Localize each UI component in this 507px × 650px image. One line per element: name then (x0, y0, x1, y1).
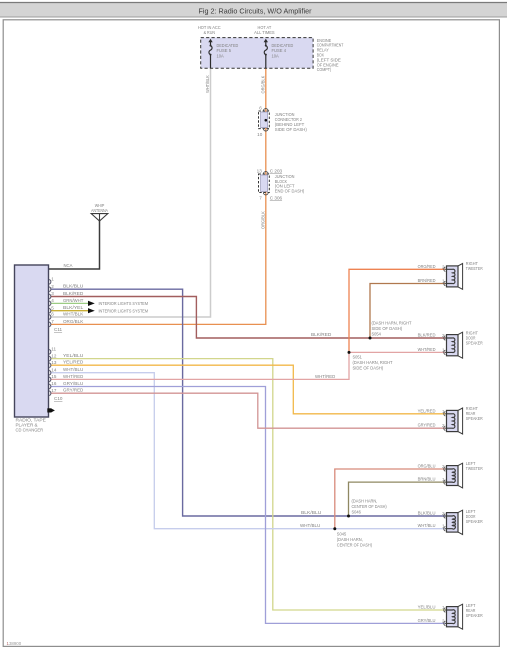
svg-text:GRN/WHT: GRN/WHT (63, 298, 83, 304)
svg-text:13: 13 (51, 360, 57, 365)
left rear speaker (458, 604, 463, 629)
interior lights system arrow upper (88, 301, 95, 306)
antenna lead wire NCA (49, 221, 100, 269)
svg-text:(DASH HARN, RIGHT: (DASH HARN, RIGHT (353, 360, 393, 365)
svg-text:GRY/RED: GRY/RED (418, 423, 436, 428)
svg-text:SPEAKER: SPEAKER (466, 613, 483, 618)
radio pin 11 (49, 349, 51, 354)
svg-text:10: 10 (257, 132, 263, 137)
svg-text:ORG/BLK: ORG/BLK (63, 319, 84, 325)
radio pin 3 BLK/RED (49, 294, 51, 299)
svg-text:GRY/BLU: GRY/BLU (63, 381, 84, 387)
radio pin 12 YEL/BLU (49, 356, 51, 361)
svg-text:WHT/BLU: WHT/BLU (63, 367, 84, 373)
svg-text:INTERIOR LIGHTS SYSTEM: INTERIOR LIGHTS SYSTEM (99, 309, 149, 314)
svg-text:SIDE OF DASH): SIDE OF DASH) (372, 326, 403, 331)
wire YEL/BLU from radio pin 12 to left rear speaker pin 1 (51, 359, 445, 610)
svg-text:FUSE 4: FUSE 4 (272, 48, 287, 53)
wire ORG/BLU from left tweeter pin 2 to splice S045 (335, 469, 445, 529)
svg-text:1: 1 (442, 605, 445, 610)
svg-text:(DASH HARN, RIGHT: (DASH HARN, RIGHT (372, 321, 412, 326)
svg-text:1: 1 (442, 347, 445, 352)
splice S046 (347, 515, 350, 518)
svg-text:2: 2 (442, 464, 445, 469)
radio pin 5 BLK/YEL (49, 308, 51, 313)
svg-text:WHT/BLU: WHT/BLU (300, 523, 320, 528)
svg-text:15: 15 (51, 374, 57, 379)
radio case ground pin with arrow (47, 408, 51, 412)
svg-text:3: 3 (51, 291, 54, 296)
svg-text:1: 1 (51, 277, 54, 282)
svg-text:YEL/RED: YEL/RED (63, 360, 84, 366)
svg-text:14: 14 (51, 367, 57, 372)
radio pin 4 GRN/WHT (49, 301, 51, 306)
svg-text:WHT/RED: WHT/RED (63, 374, 84, 380)
radio pin 17 GRY/RED (49, 391, 51, 396)
svg-text:C10: C10 (54, 396, 63, 401)
svg-text:ORG/BLK: ORG/BLK (260, 210, 265, 229)
radio pin 6 WHT/BLK (49, 315, 51, 320)
figure title bar (0, 2, 507, 17)
junction block (261, 175, 268, 192)
interior lights system arrow lower (88, 308, 95, 313)
svg-text:11: 11 (51, 347, 56, 352)
fuse dedicated fuse 4 (264, 39, 268, 43)
svg-text:BLK/YEL: BLK/YEL (63, 305, 84, 311)
wire WHT/BLU from radio pin 14 to left door speaker pin 1 via splice S045 (51, 373, 445, 529)
svg-text:2: 2 (442, 618, 445, 623)
svg-text:DEDICATED: DEDICATED (272, 43, 294, 48)
svg-text:1: 1 (442, 279, 445, 284)
wire BLK/YEL from radio pin 5 to interior lights system (51, 310, 88, 312)
svg-text:ORG/RED: ORG/RED (418, 264, 436, 269)
svg-text:WHT/BLK: WHT/BLK (205, 74, 210, 93)
svg-text:6: 6 (259, 106, 262, 111)
svg-text:FUSE 5: FUSE 5 (217, 48, 232, 53)
svg-text:SIDE OF DASH): SIDE OF DASH) (353, 365, 384, 370)
svg-text:END OF DASH): END OF DASH) (275, 189, 305, 194)
svg-text:2: 2 (51, 284, 54, 289)
wire BRN/RED from right tweeter pin 1 to splice S054 (370, 284, 445, 339)
radio pin 14 WHT/BLU (49, 370, 51, 375)
svg-text:YEL/BLU: YEL/BLU (418, 605, 436, 610)
svg-text:CD CHANGER: CD CHANGER (16, 428, 44, 433)
right rear speaker (458, 408, 463, 434)
svg-text:13: 13 (257, 168, 263, 173)
right tweeter (458, 264, 463, 290)
engine compartment relay box (201, 38, 313, 69)
wire YEL/RED from radio pin 13 to right rear speaker pin 1 (51, 365, 445, 414)
wire WHT/BLK from radio pin 6 to dedicated fuse 5 (51, 68, 211, 317)
svg-text:6: 6 (51, 312, 54, 317)
svg-text:16: 16 (51, 381, 57, 386)
svg-text:BLK/RED: BLK/RED (311, 332, 332, 337)
svg-text:4: 4 (51, 298, 54, 303)
splice S054 (369, 337, 372, 340)
wire GRY/RED from radio pin 17 to right rear speaker pin 2 (51, 393, 445, 428)
svg-text:BLK/BLU: BLK/BLU (63, 284, 84, 290)
svg-text:COMPT): COMPT) (317, 67, 332, 72)
wire GRY/BLU from radio pin 16 to left rear speaker pin 2 (51, 387, 445, 624)
svg-text:S046: S046 (352, 509, 362, 514)
svg-text:(DASH HARN,: (DASH HARN, (337, 537, 363, 542)
svg-text:WHT/BLK: WHT/BLK (63, 311, 84, 317)
right door speaker (458, 332, 463, 358)
svg-text:S045: S045 (337, 532, 347, 537)
svg-text:GRY/RED: GRY/RED (63, 388, 84, 394)
svg-text:ALL TIMES: ALL TIMES (254, 30, 275, 35)
svg-text:INTERIOR LIGHTS SYSTEM: INTERIOR LIGHTS SYSTEM (99, 301, 149, 306)
svg-text:1: 1 (442, 524, 445, 529)
svg-text:C11: C11 (54, 327, 63, 332)
svg-text:NCA: NCA (64, 263, 74, 268)
svg-text:GRY/BLU: GRY/BLU (418, 618, 436, 623)
left door speaker (458, 510, 463, 534)
svg-text:BLK/RED: BLK/RED (418, 333, 437, 338)
svg-text:& RUN: & RUN (204, 30, 215, 35)
svg-text:S051: S051 (353, 355, 363, 360)
svg-text:YEL/RED: YEL/RED (418, 408, 437, 413)
fuse dedicated fuse 5 (208, 39, 212, 43)
svg-text:TWEETER: TWEETER (466, 266, 483, 271)
radio pin 13 YEL/RED (49, 363, 51, 368)
svg-text:C 306: C 306 (270, 195, 283, 200)
svg-text:5: 5 (51, 305, 54, 310)
svg-text:138900: 138900 (7, 641, 22, 646)
svg-text:SIDE OF DASH): SIDE OF DASH) (275, 127, 307, 132)
wire GRN/WHT from radio pin 4 to interior lights system (51, 302, 88, 304)
svg-text:SPEAKER: SPEAKER (466, 341, 483, 346)
splice S051 (348, 351, 351, 354)
wire ORG/RED from right tweeter pin 2 to splice S051 (349, 269, 445, 352)
svg-text:BLK/BLU: BLK/BLU (418, 511, 436, 516)
svg-text:Fig 2: Radio Circuits, W/O Amp: Fig 2: Radio Circuits, W/O Amplifier (199, 8, 313, 15)
svg-text:12: 12 (51, 353, 57, 358)
junction connector 2 (261, 112, 268, 128)
svg-text:WHT/RED: WHT/RED (315, 374, 336, 379)
radio pin 7 ORG/BLK (49, 322, 51, 327)
splice S045 (333, 527, 336, 530)
radio pin 1 (49, 279, 51, 284)
wire ORG/BLK from radio pin 7 up through junction block to dedicated fuse 4 (51, 68, 266, 324)
svg-text:ANTENNA: ANTENNA (91, 208, 109, 213)
left tweeter (458, 463, 463, 488)
svg-text:10A: 10A (272, 53, 280, 58)
svg-text:10A: 10A (217, 53, 225, 58)
svg-text:17: 17 (51, 388, 57, 393)
svg-text:1: 1 (442, 477, 445, 482)
radio tape player and CD changer (15, 265, 49, 417)
svg-text:2: 2 (442, 333, 445, 338)
svg-text:TWEETER: TWEETER (466, 466, 483, 471)
svg-text:2: 2 (442, 264, 445, 269)
wire BLK/RED from radio pin 3 to right door speaker pin 2 via splice S054 (51, 297, 445, 339)
svg-text:DEDICATED: DEDICATED (217, 43, 239, 48)
svg-text:YEL/BLU: YEL/BLU (63, 353, 84, 359)
svg-text:BLK/RED: BLK/RED (63, 291, 84, 297)
svg-text:ORG/BLU: ORG/BLU (418, 464, 436, 469)
svg-text:WHT/BLU: WHT/BLU (418, 523, 436, 528)
svg-text:C 203: C 203 (270, 168, 283, 173)
svg-text:BRN/BLU: BRN/BLU (418, 477, 436, 482)
svg-text:ORG/BLK: ORG/BLK (260, 75, 265, 94)
radio pin 2 BLK/BLU (49, 287, 51, 292)
svg-text:S054: S054 (372, 331, 382, 336)
svg-text:7: 7 (51, 319, 54, 324)
svg-text:SPEAKER: SPEAKER (466, 416, 483, 421)
wire BRN/BLU from left tweeter pin 1 to splice S046 (349, 482, 446, 516)
svg-text:(DASH HARN,: (DASH HARN, (352, 498, 378, 503)
svg-text:2: 2 (442, 511, 445, 516)
wire WHT/RED from radio pin 15 to right door speaker pin 1 via splice S051 (51, 352, 445, 379)
radio pin 16 GRY/BLU (49, 384, 51, 389)
svg-text:CENTER OF DASH): CENTER OF DASH) (337, 543, 373, 548)
radio pin 15 WHT/RED (49, 377, 51, 382)
svg-text:1: 1 (442, 409, 445, 414)
svg-text:7: 7 (259, 195, 262, 200)
svg-text:2: 2 (442, 423, 445, 428)
svg-text:SPEAKER: SPEAKER (466, 519, 483, 524)
svg-text:BRN/RED: BRN/RED (418, 278, 436, 283)
wire BLK/BLU from radio pin 2 to left door speaker pin 2 via splice S046 (51, 289, 445, 516)
svg-text:CENTER OF DASH): CENTER OF DASH) (352, 504, 388, 509)
svg-text:BLK/BLU: BLK/BLU (301, 510, 321, 515)
svg-text:WHT/RED: WHT/RED (418, 347, 436, 352)
